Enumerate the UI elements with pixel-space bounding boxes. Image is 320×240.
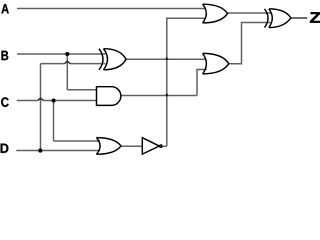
wire step vertical to OR U4 lower input <box>197 70 207 96</box>
XOR gate U1 (inputs B, D-line) <box>99 49 126 70</box>
wire vertical from XOR lower input to D <box>40 64 42 151</box>
wire B branch vertical <box>66 54 68 90</box>
output label Z <box>310 12 320 22</box>
OR gate U5 (bottom, inputs C-branch and D) <box>96 138 121 155</box>
junction wedge XOR output / vertical <box>165 57 168 60</box>
wire B branch to AND top input <box>67 89 96 91</box>
OR gate U4 (middle, inputs XOR out and AND out) <box>203 53 229 74</box>
wire B input <box>17 53 106 55</box>
wire long vertical from NOT output up to OR U2 lower input <box>167 18 206 146</box>
wire Z output <box>291 17 308 19</box>
wire D input <box>16 150 100 152</box>
junction dot D branch <box>38 149 42 153</box>
input label A <box>1 4 8 13</box>
junction wedge AND output / vertical <box>165 93 168 96</box>
wire C input with hop <box>17 100 97 102</box>
input label B <box>1 51 8 60</box>
wire AND U3 output <box>121 95 197 97</box>
wire C branch vertical <box>53 101 55 142</box>
wire OR U5 output to NOT input <box>121 145 142 147</box>
wire OR U4 output to final XOR <box>228 23 270 64</box>
wire XOR U1 lower input with hop <box>41 63 106 65</box>
input label C <box>1 97 8 107</box>
NOT gate U6 <box>142 138 162 154</box>
XOR gate U7 (final, output Z) <box>265 9 291 28</box>
wire NOT U6 output <box>163 145 167 147</box>
wire OR U2 output to final XOR top input <box>227 12 271 14</box>
OR gate U2 (top, inputs A and vertical net) <box>203 4 228 23</box>
wire A input <box>17 8 206 10</box>
wire C branch to OR U5 top input <box>54 140 101 142</box>
junction dot B branch <box>65 52 69 56</box>
wire XOR U1 output to OR U4 top input <box>126 58 207 60</box>
junction dot C branch <box>52 98 56 102</box>
AND gate U3 (inputs B-branch, C) <box>97 87 121 106</box>
input label D <box>1 144 9 153</box>
